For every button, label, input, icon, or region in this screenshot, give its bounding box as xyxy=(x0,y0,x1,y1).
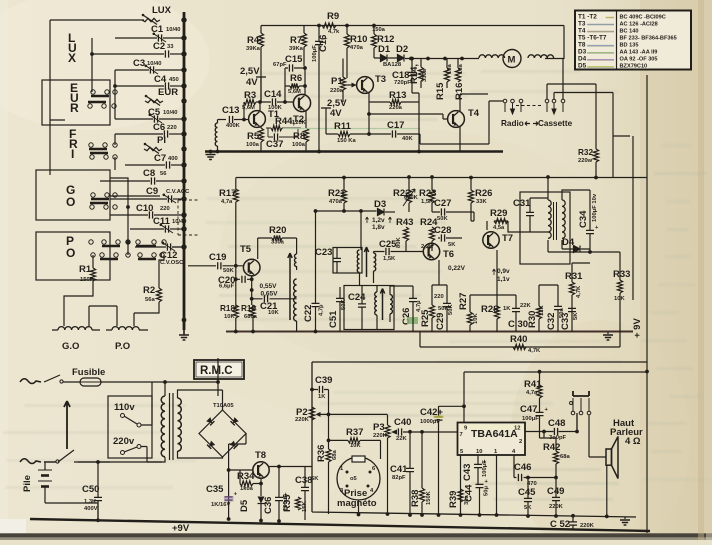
C30 wires xyxy=(470,295,516,332)
svg-text:C47: C47 xyxy=(520,404,537,415)
R25 wires xyxy=(431,285,433,332)
prise wires xyxy=(358,500,360,515)
tuner EUR xyxy=(145,87,178,106)
switch contacts GO row1 xyxy=(91,193,117,199)
R30 wires xyxy=(538,285,540,332)
P1 arrowhead xyxy=(352,83,357,88)
svg-text:C51: C51 xyxy=(328,310,339,328)
junction xyxy=(409,57,413,61)
svg-text:C39: C39 xyxy=(315,375,332,386)
svg-text:Cassette: Cassette xyxy=(538,119,573,128)
svg-text:R13: R13 xyxy=(389,90,406,101)
C51 wires xyxy=(339,287,341,332)
svg-text:C49: C49 xyxy=(547,486,564,497)
mains plug lower xyxy=(20,459,41,464)
svg-text:C 52: C 52 xyxy=(550,519,570,530)
right margin shading xyxy=(640,0,712,540)
tuner PI xyxy=(144,135,166,154)
page edge streak xyxy=(698,0,704,540)
diode D4 xyxy=(562,237,580,253)
svg-text:67pF: 67pF xyxy=(273,62,287,68)
svg-text:R32: R32 xyxy=(578,148,593,157)
svg-text:M: M xyxy=(508,55,516,66)
svg-text:R15: R15 xyxy=(435,82,446,100)
capacitor C18 xyxy=(392,70,416,86)
junction xyxy=(181,116,186,121)
C24 leads xyxy=(361,286,363,330)
resistor R37 xyxy=(346,427,363,449)
junction xyxy=(251,330,255,334)
capacitor C21 xyxy=(260,295,279,316)
svg-text:R26: R26 xyxy=(475,188,492,199)
osc tuning arrow xyxy=(288,253,292,320)
speaker Haut Parleur xyxy=(606,437,618,479)
RMC logo box xyxy=(194,360,244,379)
capacitor C45 xyxy=(518,487,536,511)
R41 wires xyxy=(539,372,541,412)
top supply rail xyxy=(261,26,564,60)
junction xyxy=(645,370,649,374)
svg-text:C19: C19 xyxy=(209,252,226,263)
capacitor C31 xyxy=(513,198,534,216)
resistor R11 xyxy=(334,121,356,144)
resistor R28 xyxy=(481,304,511,319)
junction xyxy=(181,35,186,40)
svg-text:220v: 220v xyxy=(113,436,135,447)
transformer core xyxy=(170,393,174,460)
svg-text:R9: R9 xyxy=(327,11,339,22)
resistor R30 xyxy=(527,305,545,328)
junction xyxy=(181,17,186,22)
R44/C37 side wires xyxy=(266,128,301,137)
right frame verticals xyxy=(613,75,647,533)
junction xyxy=(181,98,186,103)
junction xyxy=(367,132,371,136)
svg-text:C3: C3 xyxy=(133,58,145,69)
T8 base wire xyxy=(229,469,253,471)
junction xyxy=(181,51,186,56)
capacitor C8 xyxy=(143,168,155,185)
green scan line xyxy=(283,128,420,130)
svg-text:T8: T8 xyxy=(578,42,586,49)
capacitor C10 xyxy=(136,203,153,219)
C52 wires xyxy=(572,516,574,530)
T5 emitter column xyxy=(252,276,253,332)
wire xyxy=(125,164,165,166)
junction xyxy=(181,162,186,167)
svg-text:680a: 680a xyxy=(244,314,258,320)
svg-text:220K: 220K xyxy=(549,504,564,510)
wire R2 branch xyxy=(134,255,164,326)
C21 wires xyxy=(252,298,293,300)
svg-text:D5: D5 xyxy=(239,499,250,512)
junction xyxy=(526,514,530,518)
svg-text:4 Ω: 4 Ω xyxy=(625,436,641,447)
junction xyxy=(250,288,254,292)
R34 leads xyxy=(240,470,261,484)
switch contacts GO row2 xyxy=(90,203,117,209)
junction xyxy=(258,100,262,104)
svg-text:R2: R2 xyxy=(143,285,155,296)
C27/28 wires xyxy=(432,212,470,238)
C32 wires xyxy=(539,285,558,332)
svg-text:100μF: 100μF xyxy=(482,460,488,477)
svg-text:82pF: 82pF xyxy=(392,475,406,481)
svg-text:50μ: 50μ xyxy=(484,486,490,496)
svg-text:C15: C15 xyxy=(285,54,303,65)
voltage selector box xyxy=(108,396,152,458)
T1 collector leg xyxy=(259,102,261,111)
capacitor C48 xyxy=(548,418,567,441)
resistor R14 xyxy=(409,64,428,84)
switch contacts FRI row1 xyxy=(89,143,117,149)
coil G.O xyxy=(58,327,92,330)
capacitor C25 xyxy=(379,239,397,262)
R6 feedback xyxy=(285,85,305,87)
svg-text:1,2v: 1,2v xyxy=(372,217,385,224)
svg-text:C11: C11 xyxy=(153,216,171,227)
junction xyxy=(216,380,220,384)
svg-text:C41: C41 xyxy=(390,464,408,475)
svg-text:C1: C1 xyxy=(151,24,164,35)
T3 emitter drop xyxy=(369,93,419,135)
R18 R19 rail legs xyxy=(235,318,237,332)
resistor R42 xyxy=(543,442,570,464)
svg-text:330a: 330a xyxy=(422,68,428,82)
IF1 primary feed xyxy=(360,211,362,286)
emitter wires xyxy=(261,111,306,151)
switch upper wires xyxy=(547,59,613,99)
resistor R4 xyxy=(246,33,264,52)
svg-text:C46: C46 xyxy=(514,462,531,473)
transistor T2 xyxy=(293,94,311,125)
svg-text:R29: R29 xyxy=(490,208,507,219)
svg-text:C40: C40 xyxy=(394,417,411,428)
svg-text:150K: 150K xyxy=(426,490,432,505)
IF3 can box xyxy=(520,192,570,264)
svg-text:220w: 220w xyxy=(578,158,593,164)
svg-text:C23: C23 xyxy=(315,247,332,258)
svg-text:D2: D2 xyxy=(396,44,408,55)
svg-text:magnéto: magnéto xyxy=(337,498,377,509)
capacitor C30 xyxy=(508,303,531,330)
C23 leads xyxy=(336,248,338,273)
resistor R29 xyxy=(490,208,508,231)
svg-text:50K: 50K xyxy=(223,268,234,274)
wire xyxy=(144,100,146,102)
resistor R43 xyxy=(396,217,413,248)
ground bus xyxy=(179,335,189,340)
svg-text:C2: C2 xyxy=(153,41,165,52)
svg-text:100a: 100a xyxy=(246,142,260,148)
capacitor C17 xyxy=(387,120,413,142)
svg-text:C13: C13 xyxy=(222,105,239,116)
wire C14 to T2 base xyxy=(256,68,294,102)
svg-text:R40: R40 xyxy=(510,334,527,345)
junction xyxy=(538,370,542,374)
ground antenna xyxy=(206,155,216,160)
wire C12 row xyxy=(164,242,184,247)
svg-text:D4: D4 xyxy=(578,56,587,63)
osc feed wires xyxy=(258,238,297,259)
wire coil feeds xyxy=(64,281,117,326)
junction xyxy=(303,66,307,70)
IF1 can box xyxy=(333,248,362,274)
svg-text:T7: T7 xyxy=(502,233,513,244)
motor choke right xyxy=(528,55,554,58)
resistor R32 xyxy=(578,148,599,164)
C36 wires xyxy=(278,467,280,522)
svg-text:+ 9V: + 9V xyxy=(632,318,643,338)
junction xyxy=(242,118,246,122)
C22 column xyxy=(315,211,317,332)
resistor R9 xyxy=(322,11,340,35)
resistor R38 xyxy=(410,488,432,507)
svg-text:10K: 10K xyxy=(473,313,479,324)
wire xyxy=(163,37,184,39)
svg-text:T1 -T2: T1 -T2 xyxy=(578,13,597,20)
resistor R3 xyxy=(242,90,256,111)
resistor R21 xyxy=(328,188,347,205)
R28 wires xyxy=(496,250,498,332)
junction xyxy=(327,413,331,417)
capacitor C27 xyxy=(434,198,451,222)
svg-text:470a: 470a xyxy=(350,45,364,51)
wire C13 to T1 base xyxy=(234,119,249,121)
svg-text:C27: C27 xyxy=(434,198,451,209)
junction xyxy=(181,67,186,72)
wire xyxy=(115,118,153,120)
R32 wires xyxy=(595,84,597,178)
junction xyxy=(113,84,117,88)
svg-text:4,7K: 4,7K xyxy=(576,285,582,298)
junction xyxy=(420,513,424,517)
svg-text:2,5V: 2,5V xyxy=(240,66,260,77)
wire xyxy=(135,246,166,248)
svg-text:4V: 4V xyxy=(246,77,258,88)
resistor R15 xyxy=(435,64,453,100)
switch contacts FRI row2 xyxy=(90,153,117,159)
switch gang arrow xyxy=(64,401,70,449)
svg-text:220K: 220K xyxy=(580,523,595,529)
osc coil bottom wires xyxy=(293,266,297,332)
resistor R26 xyxy=(468,188,492,205)
junction xyxy=(182,318,187,323)
wire xyxy=(171,164,184,166)
wire xyxy=(159,118,184,120)
junction xyxy=(181,178,186,183)
svg-text:400V: 400V xyxy=(84,506,98,512)
svg-text:R43: R43 xyxy=(396,217,413,228)
switch contacts EUR row2 xyxy=(88,102,116,108)
IF1 tuning arrow xyxy=(364,247,368,277)
R31 wires xyxy=(572,263,590,332)
amp frame xyxy=(312,362,647,517)
capacitor C52 xyxy=(550,519,595,530)
resistor P3 xyxy=(373,422,390,439)
R42 column xyxy=(544,432,556,517)
capacitor C41 xyxy=(390,464,414,481)
capacitor C38 xyxy=(295,475,319,491)
wire xyxy=(115,69,149,71)
wire xyxy=(170,53,184,55)
wire C17 right xyxy=(397,101,503,144)
C38 wires xyxy=(304,467,306,521)
svg-text:+9V: +9V xyxy=(172,523,190,534)
wire R1 branch xyxy=(92,255,94,268)
speaker feed xyxy=(577,413,607,516)
resistor R1 xyxy=(79,264,96,283)
svg-text:C44: C44 xyxy=(464,484,475,502)
svg-text:Fusible: Fusible xyxy=(72,367,105,378)
resistor R33 xyxy=(613,269,630,302)
svg-text:T4: T4 xyxy=(578,27,586,34)
T7 wires xyxy=(470,212,508,230)
junction xyxy=(126,240,130,244)
resistor R35 xyxy=(282,494,308,512)
capacitor C34 xyxy=(578,193,599,233)
svg-text:R17: R17 xyxy=(219,188,236,199)
capacitor C51 xyxy=(328,298,347,328)
svg-text:C5: C5 xyxy=(148,107,161,118)
T4 base wire xyxy=(369,114,447,119)
svg-text:Pile: Pile xyxy=(22,475,33,492)
svg-text:450: 450 xyxy=(169,77,179,83)
svg-text:T10A05: T10A05 xyxy=(213,403,234,409)
junction xyxy=(90,52,94,56)
svg-text:C31: C31 xyxy=(513,198,531,209)
svg-text:40K: 40K xyxy=(402,136,413,142)
junction xyxy=(426,57,430,61)
svg-text:R3: R3 xyxy=(244,90,256,101)
IF3 core xyxy=(554,202,557,240)
svg-text:C29: C29 xyxy=(435,313,446,330)
capacitor C39 xyxy=(315,375,332,400)
capacitor C42 xyxy=(420,407,443,425)
P2 wiper xyxy=(316,412,321,417)
svg-text:220: 220 xyxy=(434,294,444,300)
bridge rectifier xyxy=(199,410,246,457)
junction xyxy=(386,512,390,516)
svg-text:D5: D5 xyxy=(578,63,587,70)
C41 wires xyxy=(409,432,411,515)
junction xyxy=(234,330,238,334)
detector node wire xyxy=(316,210,377,212)
diode D1 xyxy=(378,44,391,62)
svg-text:BF 233- BF364-BF365: BF 233- BF364-BF365 xyxy=(620,35,677,41)
svg-text:2: 2 xyxy=(519,439,522,445)
junction xyxy=(342,209,346,213)
wire xyxy=(156,180,184,182)
motor choke left xyxy=(479,55,505,58)
capacitor C1 xyxy=(151,24,166,42)
R37 wires xyxy=(329,440,381,459)
svg-text:R19: R19 xyxy=(241,304,256,313)
junction xyxy=(181,212,186,217)
junction xyxy=(216,150,220,154)
amp ground xyxy=(624,517,626,520)
capacitor C40 xyxy=(394,417,411,442)
svg-text:EUR: EUR xyxy=(158,87,178,98)
svg-text:56a: 56a xyxy=(145,297,155,303)
wire xyxy=(172,246,184,248)
D4 wires xyxy=(562,247,590,249)
switch wafer box LUX-EUR xyxy=(42,80,110,125)
wire xyxy=(92,53,164,55)
svg-text:C16: C16 xyxy=(318,35,329,52)
svg-text:600K: 600K xyxy=(404,195,419,201)
svg-text:400K: 400K xyxy=(226,123,241,129)
svg-text:C7: C7 xyxy=(154,153,166,164)
svg-text:C.V.ACC: C.V.ACC xyxy=(166,189,190,195)
IF3 secondary coil xyxy=(562,200,565,238)
svg-text:D3: D3 xyxy=(374,199,386,210)
R36 wires xyxy=(328,414,330,514)
svg-text:C38: C38 xyxy=(295,475,312,486)
resistor R41 xyxy=(524,379,542,398)
svg-text:4,7a: 4,7a xyxy=(221,199,233,205)
transformer wires xyxy=(147,382,199,462)
ground mid rail xyxy=(603,335,613,340)
resistor R22 xyxy=(393,188,419,203)
bottom rail +9V xyxy=(30,519,650,531)
R17 wires xyxy=(236,178,244,310)
R11 wires xyxy=(326,108,391,134)
svg-text:7: 7 xyxy=(460,432,463,438)
C42 wire xyxy=(439,406,465,515)
IF2 primary leads xyxy=(376,286,378,330)
svg-text:220a: 220a xyxy=(389,105,403,111)
capacitor C46 xyxy=(514,462,537,487)
wire R10 R12 tops xyxy=(347,26,374,79)
C42 olive mark xyxy=(434,416,444,419)
IF3 wires xyxy=(530,177,590,252)
svg-text:R6: R6 xyxy=(290,73,302,84)
IC TBA641A xyxy=(458,423,526,456)
svg-text:C35: C35 xyxy=(206,484,224,495)
R22 pot arrow xyxy=(403,189,415,206)
antenna tuning bus xyxy=(183,12,186,330)
svg-text:C43: C43 xyxy=(462,464,473,481)
svg-text:400: 400 xyxy=(168,156,178,162)
junction xyxy=(462,404,466,408)
junction xyxy=(277,465,281,469)
svg-text:C 30: C 30 xyxy=(508,319,528,330)
wire feed rows to bus xyxy=(50,19,144,21)
transistor T4 xyxy=(448,108,480,127)
svg-text:C50: C50 xyxy=(82,484,99,495)
svg-text:Radio: Radio xyxy=(501,119,524,128)
svg-text:PI: PI xyxy=(157,135,166,146)
svg-text:R30: R30 xyxy=(527,311,538,328)
capacitor C43 xyxy=(462,459,488,481)
mid ground xyxy=(607,332,609,334)
junction xyxy=(227,517,231,521)
svg-text:R42: R42 xyxy=(543,442,560,453)
junction xyxy=(283,100,287,104)
junction xyxy=(430,175,434,179)
resistor R13 xyxy=(389,90,406,111)
switch contacts PO row1 xyxy=(89,240,166,246)
junction xyxy=(410,57,414,61)
capacitor C24 xyxy=(348,292,366,307)
svg-text:4,7a: 4,7a xyxy=(526,390,538,396)
svg-text:0,9v: 0,9v xyxy=(497,268,510,275)
svg-text:39Ka: 39Ka xyxy=(246,46,261,52)
svg-text:10a: 10a xyxy=(458,64,464,74)
svg-text:R11: R11 xyxy=(334,121,352,132)
svg-text:220K: 220K xyxy=(295,417,310,423)
